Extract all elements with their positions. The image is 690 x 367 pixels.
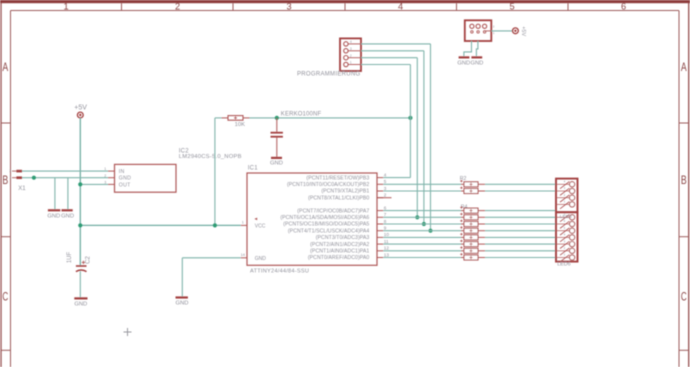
svg-text:7: 7	[384, 212, 387, 217]
svg-text:B: B	[681, 175, 687, 187]
svg-text:C2: C2	[85, 256, 91, 264]
svg-text:(PCNT2/AIN1/ADC2)PA2: (PCNT2/AIN1/ADC2)PA2	[310, 242, 369, 248]
svg-text:C: C	[681, 292, 687, 304]
svg-text:11: 11	[384, 239, 389, 244]
svg-text:(PCNT8/XTAL1/CLKI)PB0: (PCNT8/XTAL1/CLKI)PB0	[308, 195, 369, 201]
svg-text:1: 1	[63, 2, 68, 12]
svg-text:1: 1	[242, 220, 244, 224]
svg-text:10: 10	[384, 232, 390, 237]
svg-text:1: 1	[9, 176, 11, 180]
svg-text:8: 8	[384, 219, 387, 224]
svg-text:6: 6	[384, 205, 387, 210]
svg-text:3: 3	[350, 47, 352, 51]
svg-text:1UF: 1UF	[67, 252, 73, 264]
svg-text:GND: GND	[457, 61, 470, 67]
svg-text:1: 1	[350, 61, 352, 65]
svg-text:(PCNT10/INT0/OC0A/CKOUT)PB2: (PCNT10/INT0/OC0A/CKOUT)PB2	[287, 182, 369, 188]
svg-text:PROGRAMMIERUNG: PROGRAMMIERUNG	[297, 71, 361, 77]
svg-text:(PCNT7/ICP/OC0B/ADC7)PA7: (PCNT7/ICP/OC0B/ADC7)PA7	[297, 208, 369, 214]
svg-text:2: 2	[104, 174, 106, 178]
svg-text:14: 14	[241, 253, 245, 257]
svg-text:(PCNT3/T0/ADC3)PA3: (PCNT3/T0/ADC3)PA3	[316, 235, 370, 241]
svg-text:3: 3	[286, 2, 291, 12]
svg-text:X1: X1	[18, 186, 26, 192]
svg-text:(PCNT5/OC1B/MISO/DO/ADC5)PA5: (PCNT5/OC1B/MISO/DO/ADC5)PA5	[283, 222, 369, 228]
svg-text:GND: GND	[74, 302, 87, 308]
svg-text:GND: GND	[47, 214, 60, 220]
svg-text:6: 6	[621, 2, 626, 12]
svg-text:13: 13	[384, 252, 390, 257]
svg-text:GND: GND	[119, 176, 131, 182]
svg-text:(PCNT6/OC1A/SDA/MOSI/ADC6)PA6: (PCNT6/OC1A/SDA/MOSI/ADC6)PA6	[280, 215, 369, 221]
svg-text:A: A	[681, 62, 687, 74]
svg-text:A: A	[2, 62, 8, 74]
svg-text:IN: IN	[119, 169, 125, 175]
svg-text:GND: GND	[255, 256, 266, 262]
svg-text:4: 4	[398, 2, 403, 12]
svg-text:VCC: VCC	[255, 223, 266, 229]
svg-text:IC1: IC1	[248, 166, 258, 172]
svg-text:(PCNT4/T1/SCL/USCK/ADC4)PA4: (PCNT4/T1/SCL/USCK/ADC4)PA4	[288, 228, 369, 234]
svg-text:GND: GND	[176, 301, 189, 307]
svg-text:+5V: +5V	[520, 26, 526, 36]
svg-text:LED6: LED6	[557, 261, 571, 267]
svg-text:(PCNT0/AREF/ADC0)PA0: (PCNT0/AREF/ADC0)PA0	[308, 255, 370, 261]
svg-text:B: B	[2, 175, 8, 187]
svg-text:5: 5	[384, 179, 387, 184]
svg-text:3: 3	[384, 186, 387, 191]
svg-text:+5V: +5V	[74, 105, 87, 112]
svg-text:KERKO100NF: KERKO100NF	[281, 112, 322, 118]
svg-text:2: 2	[9, 169, 11, 173]
svg-text:(PCNT9/XTAL2)PB1: (PCNT9/XTAL2)PB1	[321, 189, 369, 195]
svg-text:5: 5	[509, 2, 514, 12]
svg-text:C: C	[2, 292, 8, 304]
svg-text:1: 1	[104, 167, 106, 171]
svg-text:(PCNT11/RESET/OW)PB3: (PCNT11/RESET/OW)PB3	[306, 175, 369, 181]
svg-text:2: 2	[350, 54, 352, 58]
svg-text:2: 2	[175, 2, 180, 12]
svg-text:2: 2	[384, 193, 387, 198]
svg-text:GND: GND	[61, 214, 74, 220]
svg-text:GND: GND	[270, 161, 283, 167]
svg-text:LM2940CS-5.0_NOPB: LM2940CS-5.0_NOPB	[179, 154, 242, 160]
svg-text:12: 12	[384, 246, 390, 251]
svg-text:GND: GND	[470, 61, 483, 67]
svg-text:ATTINY24/44/84-SSU: ATTINY24/44/84-SSU	[250, 268, 309, 274]
svg-text:OUT: OUT	[119, 182, 131, 188]
svg-text:LED4: LED4	[560, 214, 572, 220]
svg-text:10K: 10K	[235, 122, 245, 128]
svg-text:9: 9	[384, 226, 387, 231]
svg-text:(PCNT1/AIN0/ADC1)PA1: (PCNT1/AIN0/ADC1)PA1	[310, 249, 369, 255]
svg-text:4: 4	[350, 40, 352, 44]
svg-text:4: 4	[384, 172, 387, 177]
